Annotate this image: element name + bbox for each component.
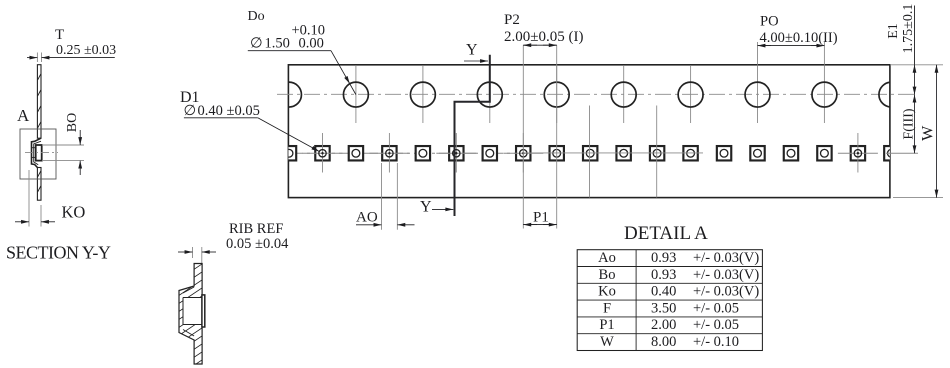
pocket square #18 xyxy=(838,133,878,173)
svg-text:0.40: 0.40 xyxy=(651,284,676,300)
cover tape zone boundary line (left) xyxy=(589,106,591,198)
sprocket hole Do #7 xyxy=(678,82,703,107)
pocket square #16 xyxy=(784,146,798,160)
section line Y-Y (thick with jog) xyxy=(455,55,490,216)
dimension BO xyxy=(42,113,84,175)
sprocket hole Do #3 xyxy=(410,82,435,107)
pocket square #2 xyxy=(303,133,343,173)
svg-text:0.05 ±0.04: 0.05 ±0.04 xyxy=(226,236,289,252)
svg-text:P1: P1 xyxy=(533,210,549,226)
tape body outline xyxy=(288,65,890,198)
svg-text:0.00: 0.00 xyxy=(299,36,324,52)
svg-text:P1: P1 xyxy=(599,317,614,333)
svg-text:2.00±0.05 (I): 2.00±0.05 (I) xyxy=(504,29,583,45)
right margin extension lines xyxy=(886,65,943,198)
table row Ao xyxy=(598,250,759,266)
DETAIL A table frame xyxy=(577,250,762,351)
Y label bottom xyxy=(420,199,453,216)
RIB dimension arrows xyxy=(178,247,216,295)
pocket square #12 xyxy=(650,146,664,160)
pocket cavity outline xyxy=(32,138,42,167)
svg-text:+/- 0.03(V): +/- 0.03(V) xyxy=(693,250,759,266)
svg-text:0.25 ±0.03: 0.25 ±0.03 xyxy=(56,43,116,58)
pocket square #5 xyxy=(416,146,430,160)
svg-text:∅1.50: ∅1.50 xyxy=(250,36,290,52)
pocket square #3 xyxy=(349,146,363,160)
svg-text:Do: Do xyxy=(248,9,265,24)
pocket row centerline (horizontal dash-dot) xyxy=(289,152,523,154)
svg-text:1.75±0.1: 1.75±0.1 xyxy=(901,4,916,54)
label A xyxy=(17,106,30,125)
tape strip cross-section with hatch xyxy=(37,65,41,201)
dimension KO xyxy=(15,170,85,227)
svg-text:BO: BO xyxy=(65,113,80,132)
dimension E1 xyxy=(886,4,916,95)
dimension W xyxy=(920,65,937,198)
detail A boundary rectangle xyxy=(20,129,56,179)
svg-text:P2: P2 xyxy=(504,12,520,28)
SECTION Y-Y title xyxy=(6,242,111,262)
svg-text:PO: PO xyxy=(760,14,779,30)
section centerline xyxy=(25,152,58,154)
pocket square #14 xyxy=(717,146,731,160)
chip inside pocket xyxy=(36,145,42,161)
svg-text:KO: KO xyxy=(62,203,86,222)
sprocket hole Do #6 xyxy=(611,82,636,107)
svg-text:3.50: 3.50 xyxy=(651,300,676,316)
extension line P (left, x=523.3) xyxy=(522,45,524,228)
svg-text:+/- 0.05: +/- 0.05 xyxy=(693,317,739,333)
cover tape zone boundary line (right) xyxy=(656,106,658,198)
svg-text:0.93: 0.93 xyxy=(651,267,676,283)
sprocket hole Do #4 xyxy=(477,82,502,107)
table row Bo xyxy=(599,267,760,283)
dimension F(III) xyxy=(902,95,917,154)
sprocket hole Do #2 xyxy=(343,82,368,107)
table row F xyxy=(603,300,739,316)
svg-text:2.00: 2.00 xyxy=(651,317,676,333)
svg-text:RIB REF: RIB REF xyxy=(229,221,283,237)
pocket square #9 xyxy=(550,146,564,160)
dimension D1 (leader to pocket hole) xyxy=(180,89,319,152)
svg-text:A: A xyxy=(17,106,30,125)
rib ridge xyxy=(202,295,205,327)
pocket square #7 xyxy=(483,146,497,160)
svg-text:AO: AO xyxy=(356,210,378,226)
pocket square #15 xyxy=(750,146,764,160)
cover tape zone centerline (continuous, over squares) xyxy=(524,152,703,154)
extension line P (right, x=556.7) xyxy=(556,45,558,228)
svg-text:Ao: Ao xyxy=(598,250,616,266)
sprocket hole Do #9 xyxy=(812,82,837,107)
pocket square #17 xyxy=(817,146,831,160)
svg-text:W: W xyxy=(920,125,937,141)
svg-text:T: T xyxy=(55,27,64,43)
rib pocket cavity xyxy=(183,287,202,336)
sprocket hole vertical centerlines xyxy=(356,66,825,123)
DETAIL A title xyxy=(624,223,708,244)
pocket square #6 xyxy=(436,133,476,173)
dimension T xyxy=(27,27,116,62)
sprocket hole Do #5 xyxy=(544,82,569,107)
svg-text:+/- 0.03(V): +/- 0.03(V) xyxy=(693,284,759,300)
svg-text:Y: Y xyxy=(466,42,478,59)
svg-text:4.00±0.10(II): 4.00±0.10(II) xyxy=(760,30,838,46)
pocket square #11 xyxy=(616,146,630,160)
pocket square #13 xyxy=(683,146,697,160)
dimension AO xyxy=(356,163,415,230)
sprocket hole Do #8 xyxy=(745,82,770,107)
pocket square #10 xyxy=(583,146,597,160)
svg-text:8.00: 8.00 xyxy=(651,334,676,350)
svg-text:Ko: Ko xyxy=(598,284,616,300)
sprocket row centerline (horizontal dash-dot) xyxy=(277,93,914,95)
pocket square #8 xyxy=(503,133,543,173)
Y label top xyxy=(464,42,488,62)
pocket square #4 xyxy=(369,133,409,173)
svg-text:+/- 0.10: +/- 0.10 xyxy=(693,334,739,350)
dimension P1 xyxy=(523,210,556,226)
RIB REF label xyxy=(226,221,289,252)
svg-text:+/- 0.05: +/- 0.05 xyxy=(693,300,739,316)
svg-text:E1: E1 xyxy=(886,23,901,39)
sprocket hole Do #10 xyxy=(879,82,904,107)
svg-text:W: W xyxy=(600,334,614,350)
rib profile material outline with hatch xyxy=(175,252,208,368)
dimension P2 xyxy=(504,12,583,45)
svg-text:DETAIL A: DETAIL A xyxy=(624,223,708,244)
component pockets (squares with D1 holes) xyxy=(282,133,899,173)
svg-text:F: F xyxy=(603,300,611,316)
table row P1 xyxy=(599,317,739,333)
table row Ko xyxy=(598,284,759,300)
svg-text:0.93: 0.93 xyxy=(651,250,676,266)
svg-text:SECTION Y-Y: SECTION Y-Y xyxy=(6,242,111,262)
dimension PO xyxy=(758,14,838,65)
pocket square #1 xyxy=(282,146,296,160)
pocket square #19 xyxy=(884,146,898,160)
dimension Do (leader to sprocket hole) xyxy=(248,9,356,95)
svg-text:Bo: Bo xyxy=(599,267,616,283)
svg-text:+/- 0.03(V): +/- 0.03(V) xyxy=(693,267,759,283)
sprocket hole Do #1 xyxy=(277,82,302,107)
svg-text:Y: Y xyxy=(420,199,432,216)
svg-text:∅0.40 ±0.05: ∅0.40 ±0.05 xyxy=(184,103,260,119)
table row W xyxy=(600,334,739,350)
